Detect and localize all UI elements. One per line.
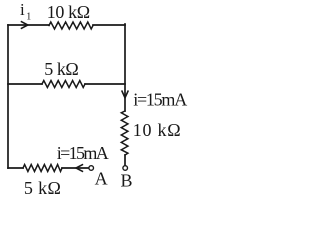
svg-text:B: B (121, 170, 133, 190)
svg-text:5 kΩ: 5 kΩ (44, 59, 79, 79)
wire bottom left stub (8, 167, 23, 169)
resistor R2 5kOhm middle zigzag (42, 81, 85, 88)
svg-text:10 kΩ: 10 kΩ (133, 120, 181, 140)
arrow i=15mA head left on bottom wire (76, 165, 82, 172)
wire top left segment (8, 24, 49, 26)
wire top right segment (93, 24, 125, 26)
resistor R4 10kOhm right zigzag (121, 111, 128, 155)
wire middle right segment (85, 83, 125, 85)
arrow i1 head on top wire (22, 22, 28, 29)
svg-text:i=15mA: i=15mA (57, 143, 109, 163)
wire bottom to terminal A (62, 167, 89, 169)
wire right vertical lower lead (124, 155, 126, 165)
wire left vertical (7, 25, 9, 168)
svg-text:A: A (95, 168, 108, 188)
terminal B open circle (123, 166, 128, 171)
svg-text:i: i (20, 0, 25, 19)
svg-text:1: 1 (26, 12, 31, 23)
arrow i=15mA head down on right wire (122, 91, 128, 98)
wire middle left segment (8, 83, 42, 85)
terminal A open circle (89, 166, 94, 171)
wire right vertical upper (124, 24, 126, 111)
svg-text:5 kΩ: 5 kΩ (24, 178, 61, 196)
svg-text:i=15mA: i=15mA (133, 90, 187, 110)
resistor R3 5kOhm bottom zigzag (23, 165, 62, 172)
svg-text:10 kΩ: 10 kΩ (47, 2, 90, 22)
resistor R1 10kOhm top zigzag (49, 22, 93, 29)
